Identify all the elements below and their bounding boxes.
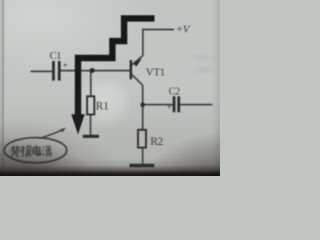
wire emitter vertical to output node [142,85,144,105]
transistor VT1 emitter arrow [133,58,142,66]
capacitor C1 [52,61,61,81]
svg-text:+V: +V [177,23,191,35]
wire R1 lead from node down to R1 [90,71,92,97]
capacitor C2 [173,96,180,112]
wire output node down to R2 [142,105,144,130]
node A: junction dot base/R1 [90,68,95,73]
callout text 基极电流 (pseudo glyphs) [10,145,51,157]
svg-text:R2: R2 [150,136,163,148]
wire R1 to ground [90,114,92,135]
callout ellipse 基极电流 [4,138,66,163]
transistor VT1 collector diagonal [132,56,143,66]
glyph 极 [21,146,31,157]
glyph 电 [33,145,41,155]
svg-text:VT1: VT1 [146,66,165,78]
svg-text:C1: C1 [50,51,62,62]
highlighted base-current path (thick staircase) [78,18,155,115]
ground of R2 [130,164,155,168]
transistor VT1 base bar [130,60,133,79]
svg-text:C2: C2 [169,87,180,98]
wire R2 to ground [142,148,144,164]
svg-text:+: + [63,60,68,70]
wire C1 to base node to transistor base [61,70,130,72]
wire input left of C1 [31,70,53,72]
resistor R1 [87,96,94,114]
node B: junction dot emitter/R2/C2 [140,103,145,108]
transistor VT1 emitter diagonal [132,75,143,86]
svg-text:R1: R1 [96,101,109,113]
wire C2 to right edge [180,104,213,106]
glyph 基 [10,146,20,158]
svg-text:+: + [167,102,172,112]
ground of R1 [83,135,99,138]
arrowhead of base-current path [71,114,84,134]
wire output node to C2 [143,104,173,106]
wire collector vertical to +V rail [143,30,174,56]
glyph 流 [43,147,52,157]
resistor R2 [138,130,146,148]
callout leader arrow [40,130,63,139]
